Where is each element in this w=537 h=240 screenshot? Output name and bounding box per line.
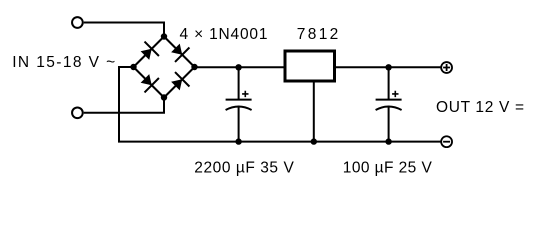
- diode D1 (bridge left-top edge, pointing to top corner): [134, 37, 165, 68]
- node C2 top: [385, 64, 391, 70]
- node regulator ground junction: [311, 138, 317, 144]
- node C1 bottom: [235, 138, 241, 144]
- wire top terminal to bridge top corner: [84, 23, 164, 37]
- node bridge right corner: [191, 64, 197, 70]
- svg-text:100 µF 25 V: 100 µF 25 V: [343, 160, 433, 177]
- regulator U1 7812: [285, 51, 335, 81]
- wire regulator ground pin: [313, 83, 315, 142]
- diode D3 (bridge left-bottom edge, pointing to bottom corner): [134, 67, 165, 98]
- node bridge left corner: [130, 64, 136, 70]
- node bridge top corner: [161, 33, 167, 39]
- wire bridge minus corner to bottom rail: [119, 67, 441, 142]
- capacitor C1 2200uF: [226, 67, 252, 141]
- terminal output plus: [441, 62, 452, 73]
- svg-text:IN 15-18 V ~: IN 15-18 V ~: [12, 54, 115, 71]
- svg-text:OUT 12 V =: OUT 12 V =: [436, 99, 524, 116]
- diode D2 (bridge top-right edge, pointing to right corner): [164, 37, 195, 68]
- svg-text:4 × 1N4001: 4 × 1N4001: [180, 26, 268, 43]
- svg-text:2200 µF 35 V: 2200 µF 35 V: [194, 160, 294, 177]
- terminal AC input bottom: [72, 107, 83, 118]
- diode D4 (bridge bottom-right edge, pointing to right corner): [164, 67, 195, 98]
- node C2 bottom: [385, 138, 391, 144]
- terminal output minus: [441, 136, 452, 147]
- wire bottom terminal to bridge bottom corner: [84, 98, 164, 113]
- wire + rail from bridge right corner to + output: [195, 66, 441, 68]
- terminal AC input top: [72, 17, 83, 28]
- node C1 top: [235, 64, 241, 70]
- node bridge bottom corner: [161, 94, 167, 100]
- capacitor C2 100uF: [376, 67, 402, 141]
